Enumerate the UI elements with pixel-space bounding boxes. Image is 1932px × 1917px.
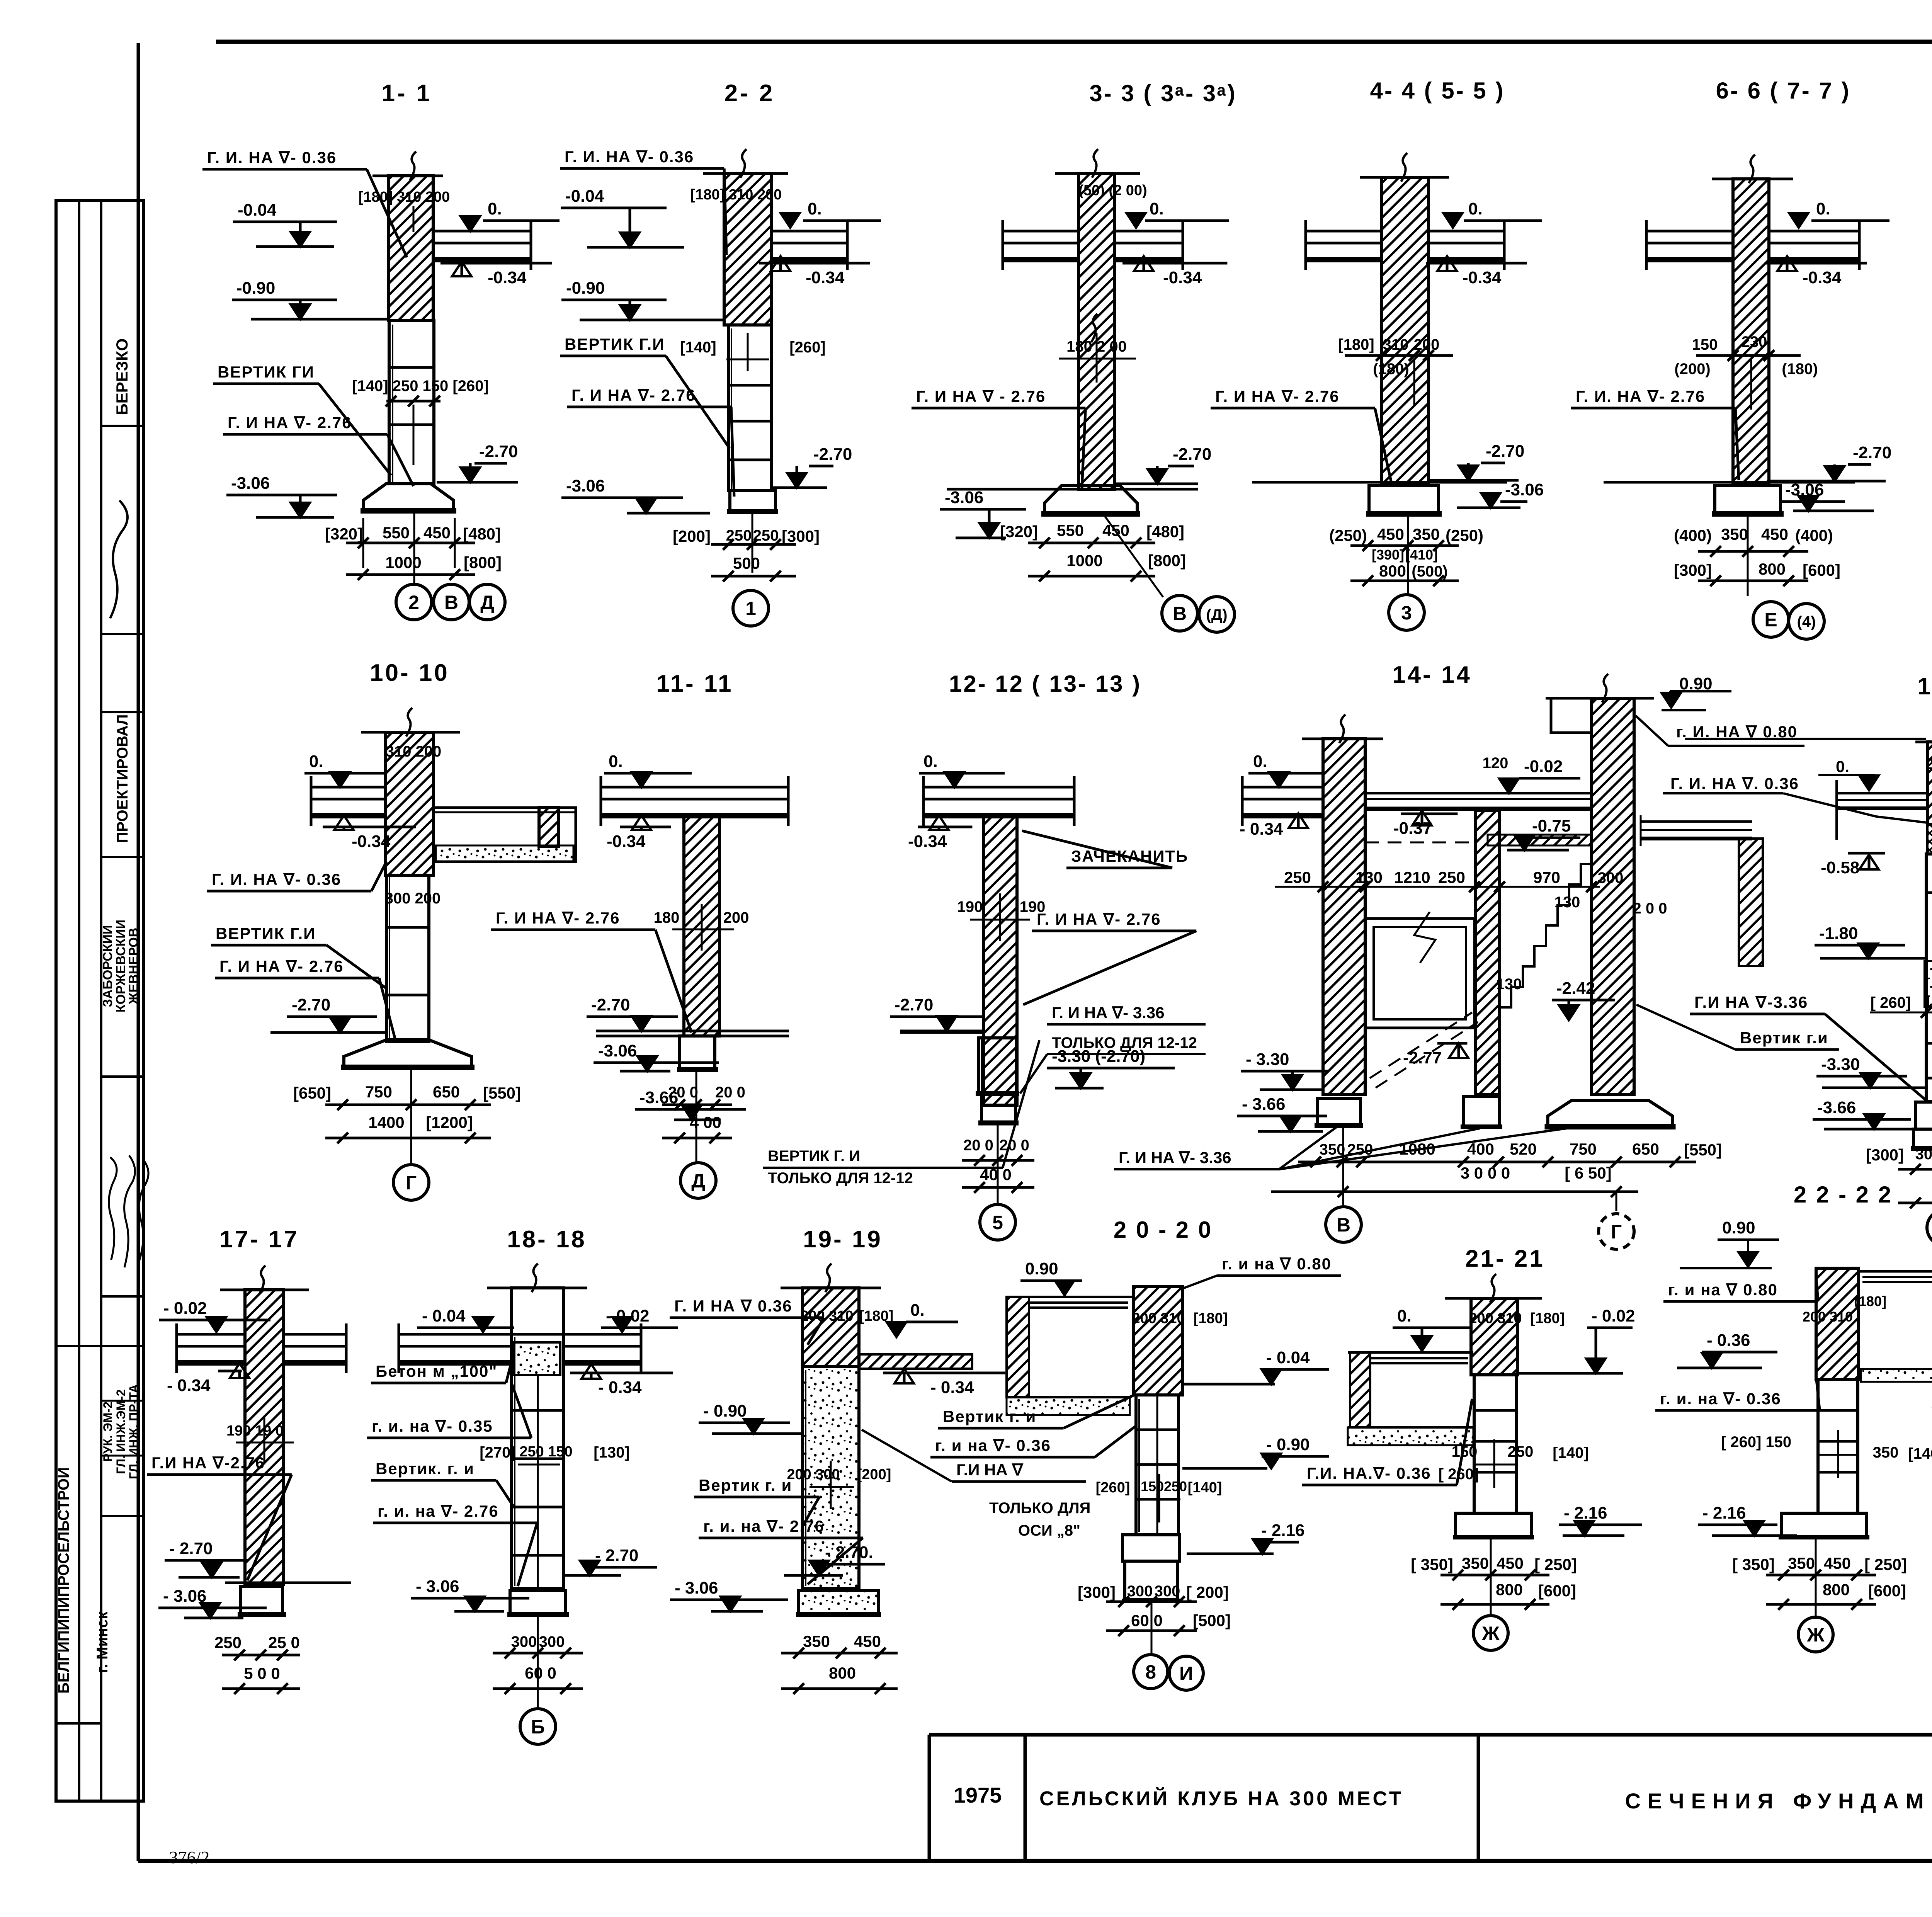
axis circles 3-3: [1162, 595, 1197, 631]
ground 11-11: [596, 1035, 789, 1038]
section 4-4 (5-5): [1211, 78, 1544, 630]
svg-text:Д: Д: [691, 1170, 705, 1192]
svg-text:[550]: [550]: [483, 1084, 521, 1102]
svg-text:[ 250]: [ 250]: [1864, 1555, 1907, 1573]
axis circles 6-6: [1753, 602, 1789, 637]
blocks 15-15: [1926, 854, 1932, 1101]
stairs 14-14: [1500, 864, 1592, 1007]
footing 21-21: [1456, 1513, 1531, 1536]
svg-text:г. и. на ∇- 0.36: г. и. на ∇- 0.36: [1660, 1390, 1781, 1408]
svg-text:-2.70: -2.70: [1173, 445, 1211, 464]
svg-text:- 0.34: - 0.34: [930, 1378, 974, 1397]
section 11-11: [491, 670, 789, 1198]
slabs 18-18: [399, 1333, 512, 1336]
svg-text:0.: 0.: [910, 1301, 925, 1320]
svg-text:1000: 1000: [385, 553, 421, 572]
svg-text:250: 250: [1508, 1443, 1534, 1460]
svg-text:Г.И НА ∇-3.36: Г.И НА ∇-3.36: [1694, 993, 1808, 1011]
slabs 17-17: [177, 1333, 245, 1336]
svg-text:- 0.34: - 0.34: [167, 1376, 211, 1395]
svg-text:750: 750: [365, 1083, 392, 1101]
svg-text:5: 5: [992, 1212, 1003, 1233]
svg-text:Г: Г: [1611, 1221, 1622, 1243]
main wall 20-20: [1134, 1287, 1182, 1395]
svg-text:-2.70: -2.70: [895, 995, 933, 1014]
svg-text:350: 350: [1788, 1554, 1815, 1572]
svg-text:ВЕРТИК ГИ: ВЕРТИК ГИ: [218, 363, 315, 381]
svg-text:Бетон м „100": Бетон м „100": [376, 1362, 497, 1380]
axis circle 15-15: [1927, 1210, 1932, 1245]
slab right 2-2: [772, 230, 847, 233]
svg-text:450: 450: [1761, 525, 1788, 543]
svg-text:300 200: 300 200: [385, 890, 441, 907]
svg-text:12- 12 ( 13- 13 ): 12- 12 ( 13- 13 ): [949, 671, 1141, 697]
svg-text:СЕЛЬСКИЙ КЛУБ НА 300 МЕСТ: СЕЛЬСКИЙ КЛУБ НА 300 МЕСТ: [1039, 1787, 1403, 1810]
left stamp column: [56, 201, 144, 1801]
svg-text:ОСИ „8": ОСИ „8": [1018, 1522, 1080, 1539]
svg-text:3 0 0 0: 3 0 0 0: [1461, 1164, 1510, 1182]
svg-text:0.: 0.: [923, 752, 938, 771]
svg-text:Г. И НА ∇ 0.36: Г. И НА ∇ 0.36: [674, 1297, 793, 1315]
svg-text:Г. И. НА ∇- 0.36: Г. И. НА ∇- 0.36: [565, 148, 694, 166]
svg-text:120: 120: [1483, 755, 1509, 772]
svg-text:1000: 1000: [1066, 551, 1102, 570]
svg-text:0.90: 0.90: [1025, 1259, 1058, 1278]
footing 3-3: [1044, 485, 1137, 514]
axis circles 20-20: [1134, 1655, 1168, 1689]
svg-text:[600]: [600]: [1868, 1582, 1906, 1600]
svg-text:[ 6 50]: [ 6 50]: [1565, 1164, 1611, 1182]
svg-text:350: 350: [1721, 525, 1748, 543]
svg-text:[390]: [390]: [1372, 547, 1404, 563]
svg-text:(4): (4): [1797, 613, 1816, 630]
svg-text:-3.66: -3.66: [1817, 1098, 1856, 1117]
svg-text:ГЛ. ИНЖ.ЭМ-2: ГЛ. ИНЖ.ЭМ-2: [114, 1389, 128, 1474]
svg-text:550: 550: [1057, 521, 1084, 539]
svg-text:- 0.90: - 0.90: [703, 1402, 747, 1420]
section 21-21: [1302, 1245, 1642, 1650]
slab 12-12: [923, 786, 1074, 789]
svg-text:300: 300: [1127, 1583, 1153, 1600]
svg-text:350: 350: [1873, 1444, 1899, 1461]
svg-text:ПРОЕКТИРОВАЛ: ПРОЕКТИРОВАЛ: [114, 714, 131, 843]
column 18-18: [512, 1288, 564, 1589]
axis circle 21-21: [1473, 1616, 1508, 1650]
blocks 21-21: [1474, 1375, 1517, 1513]
sheet frame: [216, 40, 1932, 44]
svg-text:ГЛ. ИНЖ. ПР-ТА: ГЛ. ИНЖ. ПР-ТА: [127, 1384, 141, 1479]
concrete block 15-15: [1925, 961, 1932, 1007]
svg-text:[300]: [300]: [782, 527, 820, 545]
svg-text:-0.02: -0.02: [1524, 757, 1563, 776]
svg-text:ТОЛЬКО ДЛЯ: ТОЛЬКО ДЛЯ: [989, 1500, 1090, 1517]
svg-text:Д: Д: [480, 592, 494, 613]
svg-text:- 0.34: - 0.34: [598, 1378, 642, 1397]
svg-text:21- 21: 21- 21: [1465, 1245, 1545, 1272]
blocks 20-20: [1136, 1395, 1179, 1535]
svg-text:-3.06: -3.06: [1505, 480, 1544, 499]
svg-text:В: В: [1337, 1214, 1350, 1236]
svg-text:[600]: [600]: [1803, 561, 1840, 579]
svg-text:[180]: [180]: [1338, 336, 1374, 353]
wall 12-12: [983, 815, 1017, 1105]
slab left 10-10: [311, 786, 385, 789]
svg-text:1975: 1975: [954, 1783, 1002, 1807]
svg-text:Е: Е: [1764, 609, 1777, 631]
section 22-22: [1655, 1182, 1932, 1652]
svg-text:190 19 0: 190 19 0: [226, 1423, 284, 1439]
svg-text:(180]: (180]: [1854, 1293, 1886, 1309]
svg-text:250 150: 250 150: [519, 1444, 572, 1460]
svg-text:0.: 0.: [488, 199, 502, 218]
svg-text:376/2: 376/2: [169, 1847, 210, 1867]
svg-text:800: 800: [1496, 1580, 1523, 1599]
svg-text:800: 800: [1759, 560, 1786, 578]
svg-text:[300]: [300]: [1674, 561, 1712, 579]
svg-text:[410]: [410]: [1405, 547, 1438, 563]
svg-text:[800]: [800]: [464, 553, 502, 572]
svg-text:Г.И. НА.∇- 0.36: Г.И. НА.∇- 0.36: [1307, 1464, 1431, 1482]
svg-text:180: 180: [654, 909, 680, 926]
svg-text:2: 2: [408, 592, 419, 613]
svg-text:350: 350: [1462, 1554, 1489, 1572]
svg-text:Г. И НА ∇- 2.76: Г. И НА ∇- 2.76: [571, 386, 696, 404]
slabs 3-3: [1003, 230, 1078, 233]
svg-text:[500]: [500]: [1193, 1611, 1231, 1630]
svg-text:Г. И НА ∇- 2.76: Г. И НА ∇- 2.76: [219, 957, 344, 975]
svg-text:- 0.04: - 0.04: [422, 1306, 466, 1325]
svg-text:Г. И. НА ∇- 0.36: Г. И. НА ∇- 0.36: [207, 148, 337, 167]
svg-text:10- 10: 10- 10: [370, 660, 449, 686]
ground 6-6: [1604, 481, 1855, 484]
svg-text:17- 17: 17- 17: [219, 1226, 299, 1253]
svg-text:-2.42: -2.42: [1556, 979, 1595, 998]
svg-text:11- 11: 11- 11: [656, 670, 733, 697]
svg-text:Ж: Ж: [1806, 1624, 1825, 1646]
svg-text:450: 450: [1497, 1554, 1524, 1572]
svg-text:250: 250: [1347, 1141, 1373, 1158]
svg-text:[1200]: [1200]: [426, 1113, 473, 1131]
svg-text:(180): (180): [1782, 361, 1818, 378]
svg-text:550: 550: [383, 524, 410, 542]
svg-text:г. и. на ∇- 0.35: г. и. на ∇- 0.35: [372, 1417, 493, 1435]
top stub 15-15: [1915, 741, 1932, 743]
svg-text:650: 650: [433, 1083, 460, 1101]
axis circle 2-2: [733, 590, 769, 626]
svg-text:350: 350: [1320, 1141, 1345, 1158]
slab 11-11: [601, 786, 788, 789]
svg-text:[320]: [320]: [1000, 522, 1038, 541]
svg-text:(250): (250): [1329, 526, 1367, 544]
svg-text:- 3.06: - 3.06: [675, 1579, 718, 1597]
middle wall 14-14: [1475, 811, 1500, 1094]
svg-text:-2.70: -2.70: [292, 995, 330, 1014]
svg-text:-0.37: -0.37: [1393, 819, 1432, 838]
svg-text:Г. И НА ∇- 2.76: Г. И НА ∇- 2.76: [1037, 910, 1161, 928]
wall 22-22: [1816, 1268, 1859, 1379]
svg-text:-0.34: -0.34: [1803, 268, 1842, 287]
svg-text:г. и на ∇ 0.80: г. и на ∇ 0.80: [1222, 1255, 1332, 1273]
svg-text:25 0: 25 0: [268, 1633, 300, 1652]
svg-text:300: 300: [1155, 1583, 1180, 1600]
axis circle 11-11: [680, 1163, 716, 1198]
svg-text:ВЕРТИК Г. И: ВЕРТИК Г. И: [768, 1148, 860, 1165]
concrete patch 18-18: [514, 1342, 560, 1375]
svg-text:5 0 0: 5 0 0: [244, 1664, 280, 1682]
lower column 12-12: [981, 1094, 1015, 1123]
svg-text:250: 250: [1438, 868, 1465, 886]
svg-text:[140]: [140]: [1553, 1444, 1588, 1461]
svg-text:- 3.66: - 3.66: [1242, 1095, 1286, 1114]
footing 19-19: [799, 1590, 878, 1614]
svg-text:-2.70: -2.70: [1486, 442, 1524, 461]
svg-text:- 2.70: - 2.70: [595, 1546, 639, 1565]
svg-text:-0.34: -0.34: [1463, 268, 1502, 287]
section 3-3 (3a-3a): [912, 80, 1237, 632]
svg-text:0.: 0.: [309, 752, 323, 771]
footing 18-18: [510, 1590, 566, 1614]
svg-text:0.90: 0.90: [1722, 1218, 1755, 1237]
foundation blocks 1-1: [389, 321, 434, 484]
brick top 19-19: [803, 1288, 859, 1367]
window opening 14-14: [1365, 919, 1475, 1028]
slabs 6-6: [1646, 230, 1733, 233]
svg-text:[480]: [480]: [463, 525, 501, 543]
svg-text:750: 750: [1570, 1140, 1597, 1158]
svg-text:[140]: [140]: [1188, 1480, 1222, 1496]
svg-text:6- 6 ( 7- 7 ): 6- 6 ( 7- 7 ): [1716, 78, 1851, 104]
svg-text:ЗАБОРСКИИ: ЗАБОРСКИИ: [100, 925, 115, 1007]
footing 22-22: [1781, 1513, 1866, 1536]
footing 20-20: [1122, 1535, 1179, 1561]
svg-text:-0.34: -0.34: [806, 268, 845, 287]
svg-text:Ж: Ж: [1481, 1623, 1500, 1644]
svg-text:- 0.36: - 0.36: [1707, 1331, 1750, 1350]
svg-text:[270]: [270]: [480, 1444, 515, 1461]
svg-text:[ 200]: [ 200]: [1186, 1583, 1229, 1601]
svg-text:40 0: 40 0: [980, 1165, 1012, 1184]
left wall 14-14: [1302, 738, 1383, 740]
section 1-1: [202, 80, 560, 620]
footings 14-14: [1317, 1099, 1361, 1126]
svg-text:ТОЛЬКО ДЛЯ 12-12: ТОЛЬКО ДЛЯ 12-12: [768, 1170, 913, 1187]
svg-text:200 310: 200 310: [1469, 1310, 1522, 1327]
svg-text:18- 18: 18- 18: [507, 1226, 587, 1253]
blocks 2-2: [728, 325, 772, 490]
svg-text:(400): (400): [1674, 526, 1712, 544]
svg-text:-1.80: -1.80: [1819, 924, 1858, 943]
svg-text:1- 1: 1- 1: [382, 80, 432, 107]
svg-text:г. и на ∇- 0.36: г. и на ∇- 0.36: [935, 1436, 1051, 1454]
svg-text:- 3.06: - 3.06: [416, 1577, 459, 1596]
wall 21-21: [1471, 1298, 1517, 1375]
slab right 1-1: [433, 230, 531, 233]
svg-text:[180]: [180]: [1531, 1310, 1565, 1327]
svg-text:г. и. на ∇- 2.76: г. и. на ∇- 2.76: [378, 1502, 499, 1520]
svg-text:2 0 0: 2 0 0: [1633, 900, 1667, 917]
svg-text:[ 260] 150: [ 260] 150: [1721, 1434, 1791, 1451]
floor structure right 10-10: [434, 808, 576, 862]
svg-text:г. и. на ∇- 2.76: г. и. на ∇- 2.76: [703, 1517, 825, 1535]
svg-text:- 0.02: - 0.02: [1592, 1306, 1635, 1325]
svg-text:ВЕРТИК Г.И: ВЕРТИК Г.И: [216, 924, 316, 942]
svg-text:0.: 0.: [1836, 757, 1849, 776]
svg-text:- 0.02: - 0.02: [163, 1299, 207, 1318]
svg-text:[ 260]: [ 260]: [1871, 994, 1911, 1011]
svg-text:(250): (250): [1446, 526, 1483, 544]
svg-text:- 2.70: - 2.70: [169, 1539, 213, 1558]
svg-text:0.: 0.: [609, 752, 623, 771]
svg-text:450: 450: [423, 524, 451, 542]
axis circle 12-12: [980, 1204, 1015, 1240]
svg-text:- 2.16: - 2.16: [1261, 1521, 1305, 1540]
svg-text:200 300: 200 300: [787, 1466, 840, 1483]
svg-text:1080: 1080: [1399, 1140, 1435, 1158]
svg-text:14- 14: 14- 14: [1392, 662, 1472, 688]
svg-text:-0.34: -0.34: [488, 268, 527, 287]
svg-text:19- 19: 19- 19: [803, 1226, 883, 1253]
svg-text:1210: 1210: [1394, 868, 1430, 886]
svg-text:[260]: [260]: [789, 339, 825, 356]
svg-text:[140]: [140]: [1908, 1445, 1932, 1462]
axis circles 1-1: [396, 584, 432, 620]
channel left 20-20: [1007, 1297, 1029, 1397]
section 19-19: [670, 1226, 1090, 1694]
svg-text:-3.66: -3.66: [639, 1088, 678, 1107]
level 0.90 15-15: [1685, 738, 1926, 740]
svg-text:200: 200: [723, 909, 749, 926]
svg-text:-3.06: -3.06: [598, 1041, 637, 1060]
section 10-10: [207, 660, 576, 1200]
svg-text:-3.06: -3.06: [566, 476, 605, 495]
svg-text:2- 2: 2- 2: [724, 80, 775, 107]
block 17-17: [240, 1587, 282, 1614]
svg-text:520: 520: [1510, 1140, 1537, 1158]
landing slab 14-14: [1365, 792, 1592, 794]
svg-text:20 0: 20 0: [715, 1084, 745, 1101]
ground 4-4: [1252, 481, 1507, 484]
section 2-2: [560, 80, 881, 626]
svg-text:200 310: 200 310: [1132, 1310, 1185, 1327]
svg-text:Вертик г. и: Вертик г. и: [699, 1476, 792, 1494]
svg-text:350: 350: [803, 1632, 830, 1650]
svg-text:[800]: [800]: [1148, 551, 1186, 570]
svg-text:3- 3 ( 3ᵃ- 3ᵃ): 3- 3 ( 3ᵃ- 3ᵃ): [1089, 80, 1236, 106]
svg-text:0.: 0.: [1468, 199, 1483, 218]
footing 10-10: [344, 1040, 471, 1067]
svg-text:[300]: [300]: [1866, 1146, 1904, 1164]
svg-text:[650]: [650]: [293, 1084, 331, 1102]
svg-text:450: 450: [854, 1632, 881, 1650]
svg-text:БЕЛГИПИПИПРОСЕЛЬСТРОИ: БЕЛГИПИПИПРОСЕЛЬСТРОИ: [55, 1467, 72, 1694]
svg-text:800: 800: [829, 1664, 856, 1682]
svg-text:Г. И. НА ∇- 0.36: Г. И. НА ∇- 0.36: [212, 870, 341, 888]
svg-text:- 2.16: - 2.16: [1564, 1504, 1607, 1522]
svg-text:250: 250: [1164, 1478, 1187, 1494]
section 20-20: [930, 1217, 1341, 1690]
svg-text:В: В: [1173, 603, 1187, 624]
svg-text:[300]: [300]: [1078, 1583, 1116, 1601]
svg-text:1400: 1400: [368, 1113, 404, 1131]
svg-text:[600]: [600]: [1538, 1582, 1576, 1600]
concrete column 19-19: [803, 1367, 859, 1589]
svg-text:г. и на ∇ 0.80: г. и на ∇ 0.80: [1668, 1281, 1778, 1299]
svg-text:Г. И НА ∇- 2.76: Г. И НА ∇- 2.76: [1215, 387, 1340, 405]
svg-text:-0.90: -0.90: [566, 279, 605, 298]
svg-text:230: 230: [1742, 333, 1767, 350]
svg-text:400: 400: [1467, 1140, 1494, 1158]
svg-text:Г. И. НА ∇- 2.76: Г. И. НА ∇- 2.76: [1576, 387, 1705, 405]
svg-text:20 0: 20 0: [999, 1137, 1029, 1154]
svg-text:Г. И НА ∇ - 2.76: Г. И НА ∇ - 2.76: [916, 387, 1046, 405]
section 12-12 (13-13): [635, 671, 1206, 1240]
block 11-11: [680, 1036, 715, 1070]
svg-text:4- 4 ( 5- 5 ): 4- 4 ( 5- 5 ): [1370, 78, 1505, 104]
svg-text:- 0.34: - 0.34: [1240, 820, 1283, 839]
svg-text:(400): (400): [1795, 526, 1833, 544]
svg-text:- 2.16: - 2.16: [1702, 1504, 1746, 1522]
svg-text:450: 450: [1824, 1554, 1851, 1572]
svg-text:200 310: 200 310: [800, 1308, 853, 1324]
section 17-17: [147, 1226, 351, 1694]
svg-text:Вертик г. и: Вертик г. и: [943, 1407, 1036, 1425]
svg-text:200 310: 200 310: [1803, 1309, 1853, 1325]
svg-text:200 310: 200 310: [1925, 756, 1932, 772]
slab left 14-14: [1242, 786, 1323, 789]
title block: [929, 1733, 1932, 1737]
svg-text:250: 250: [1284, 868, 1311, 886]
ground 12-12: [900, 1031, 983, 1034]
right stair wall 14-14: [1546, 697, 1654, 700]
svg-text:-0.04: -0.04: [565, 187, 604, 206]
svg-text:-2.70: -2.70: [1853, 443, 1891, 462]
svg-text:(200): (200): [1674, 361, 1710, 378]
svg-text:[200]: [200]: [673, 527, 711, 545]
svg-text:-0.34: -0.34: [908, 832, 947, 851]
svg-text:-3.06: -3.06: [945, 488, 983, 507]
svg-text:-3.06: -3.06: [231, 474, 270, 493]
svg-text:130: 130: [1496, 976, 1522, 993]
svg-text:Г. И НА ∇- 3.36: Г. И НА ∇- 3.36: [1119, 1148, 1231, 1167]
svg-text:г. Минск: г. Минск: [94, 1611, 111, 1673]
svg-text:60 0: 60 0: [525, 1664, 556, 1682]
svg-text:-0.34: -0.34: [1163, 268, 1202, 287]
svg-text:0.: 0.: [1150, 199, 1164, 218]
svg-text:20 0: 20 0: [963, 1137, 993, 1154]
svg-text:Г.И НА ∇: Г.И НА ∇: [956, 1461, 1024, 1479]
svg-text:-2.77: -2.77: [1403, 1048, 1442, 1067]
svg-text:2 0 - 2 0: 2 0 - 2 0: [1114, 1217, 1213, 1243]
svg-text:970: 970: [1533, 868, 1560, 886]
svg-text:2 2 - 2 2: 2 2 - 2 2: [1794, 1182, 1893, 1208]
svg-text:250: 250: [214, 1633, 241, 1652]
stamp signature: [110, 500, 128, 618]
svg-text:[180]: [180]: [1194, 1310, 1228, 1327]
svg-text:-2.70: -2.70: [479, 442, 518, 461]
svg-text:[260]: [260]: [1096, 1480, 1130, 1496]
ground 3-3: [947, 488, 1198, 491]
footing 4-4: [1369, 485, 1439, 512]
box right 22-22: [1859, 1270, 1932, 1273]
svg-text:1: 1: [745, 598, 756, 619]
-0.34 10-10: [334, 815, 354, 830]
svg-text:0.: 0.: [1253, 752, 1267, 771]
svg-text:15- 15: 15- 15: [1917, 673, 1932, 700]
svg-text:(Д): (Д): [1206, 606, 1227, 623]
axis circles 14-14: [1326, 1207, 1361, 1242]
svg-text:-2.70: -2.70: [591, 995, 630, 1014]
foundation block 12-12: [978, 1038, 1016, 1094]
